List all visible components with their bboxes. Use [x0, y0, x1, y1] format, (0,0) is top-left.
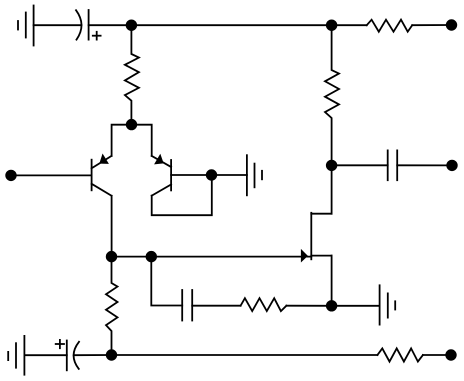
junction J4	[107, 252, 117, 262]
resistor R5	[106, 257, 118, 355]
wire J3 to Q1 emitter	[112, 125, 132, 156]
wire J1 to J2 (V+ rail)	[131, 24, 331, 26]
wire C2 to terminal T3	[397, 164, 452, 166]
ground GND1 (supply return, rotated, top-left)	[18, 6, 34, 46]
wire J3 to Q2 emitter	[132, 125, 152, 156]
wire R6 to terminal T4	[423, 354, 451, 356]
capacitor C2	[388, 150, 398, 180]
capacitor C3	[182, 290, 192, 321]
wire GND4 to C4	[24, 354, 66, 356]
terminal T1	[447, 20, 457, 30]
junction J8	[327, 301, 337, 311]
capacitor C4 positive plate	[66, 341, 68, 371]
wire R4 to J8	[286, 305, 331, 307]
terminal T4	[446, 350, 456, 360]
ground GND3	[380, 285, 396, 324]
junction J9	[107, 350, 117, 360]
wire J9 to R6 (bottom rail)	[112, 354, 378, 356]
terminal T2 (input)	[6, 171, 16, 181]
junction J6	[327, 161, 337, 171]
terminal T3	[447, 161, 457, 171]
transistor Q1	[92, 155, 112, 196]
wire Q2 base to J5	[171, 174, 211, 176]
wire J7 to C3	[151, 257, 182, 306]
junction J7	[147, 252, 157, 262]
resistor R2	[325, 25, 339, 165]
resistor R3	[367, 20, 413, 32]
wire J5 to GND2	[212, 174, 247, 176]
wire C1 to junction J1	[89, 24, 132, 26]
junction J3	[127, 120, 137, 130]
ground GND4 (supply return, rotated, bottom-left)	[8, 336, 24, 375]
capacitor C4 negative curved plate	[74, 342, 79, 369]
capacitor C1 positive plate	[88, 10, 90, 40]
junction J2	[327, 20, 337, 30]
capacitor C1 polarity +	[93, 32, 101, 40]
wire Q2 collector loop to J5	[152, 175, 212, 215]
resistor R1	[125, 25, 139, 124]
resistor R6	[377, 348, 423, 361]
resistor R4	[241, 298, 287, 311]
capacitor C4 polarity +	[56, 340, 64, 348]
capacitor C1 negative curved plate	[76, 10, 82, 39]
wire J4 to J7	[112, 256, 152, 258]
wire J7 to Q3 base	[151, 256, 311, 258]
transistor Q2	[152, 155, 171, 196]
wire Q1 collector to J4	[111, 196, 113, 257]
wire GND1 to C1	[34, 24, 82, 26]
junction J1	[127, 20, 137, 30]
wire T2 to Q1 base	[11, 174, 92, 176]
wire J6 to Q3 collector	[331, 165, 333, 213]
junction J5	[207, 170, 217, 180]
wire Q3 emitter to J8	[331, 256, 333, 306]
wire J8 to GND3	[332, 305, 380, 307]
wire J6 to C2	[332, 164, 388, 166]
wire R3 to terminal T1	[412, 24, 451, 26]
transistor Q3	[301, 213, 331, 261]
ground GND2	[247, 155, 262, 195]
wire J2 to R3	[332, 24, 367, 26]
wire C3 to R4	[192, 305, 240, 307]
wire C4 to junction J9	[74, 354, 112, 356]
